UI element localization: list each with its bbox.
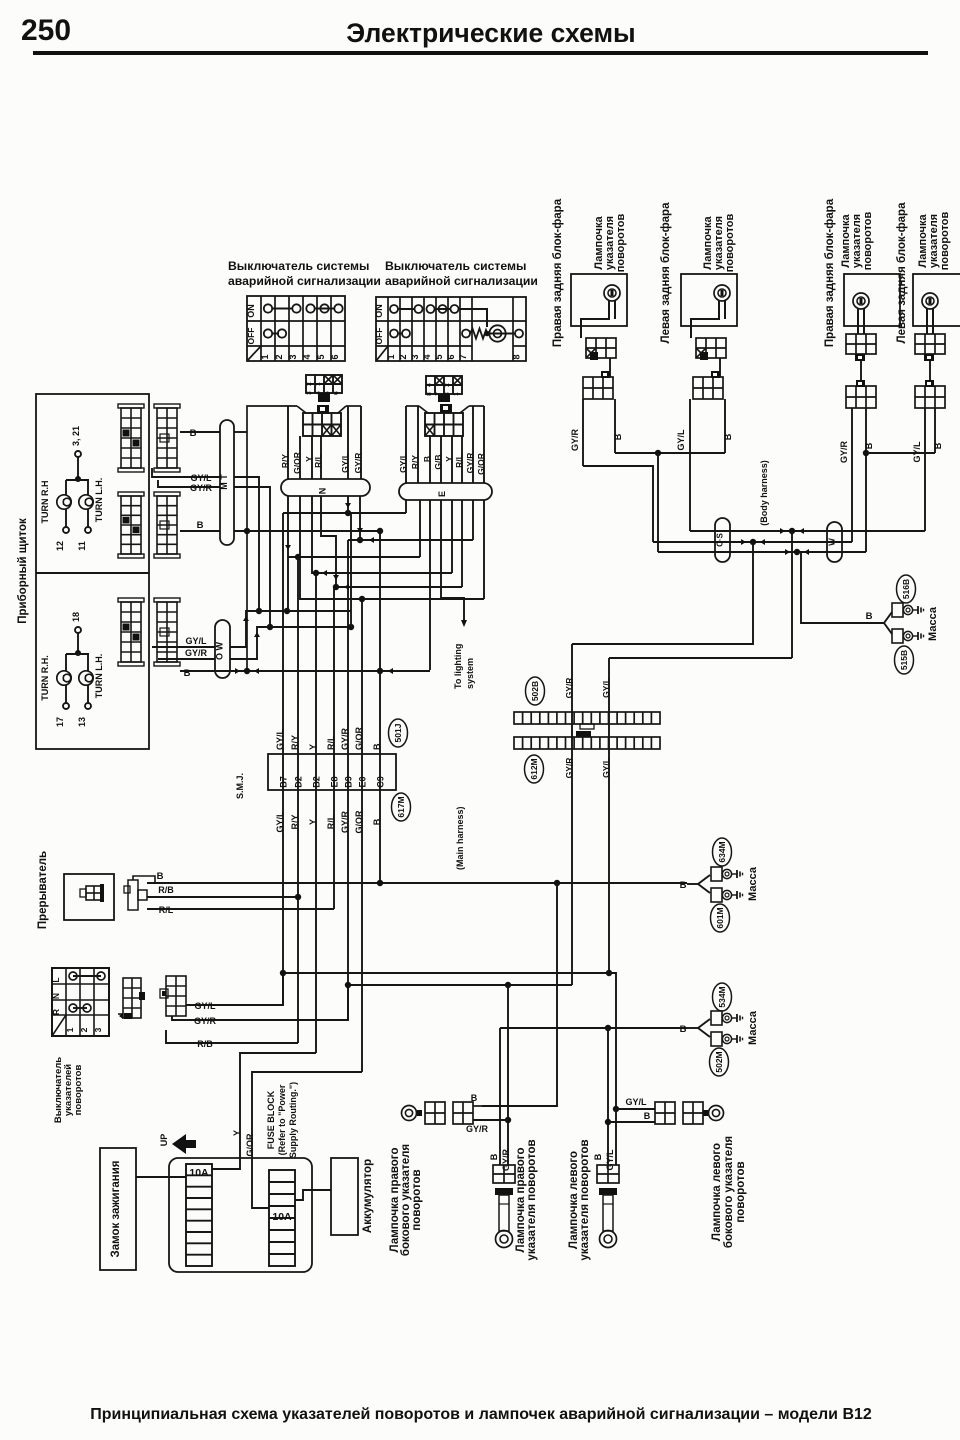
- svg-text:2: 2: [398, 354, 408, 359]
- R/Y vertical below SMJ: [297, 790, 299, 1043]
- right rear combination lamp harness wire: [609, 358, 611, 377]
- svg-text:Y: Y: [444, 456, 454, 462]
- svg-text:R/Y: R/Y: [290, 735, 300, 750]
- svg-text:5: 5: [316, 354, 326, 359]
- svg-text:B: B: [864, 442, 874, 449]
- svg-text:6: 6: [333, 391, 340, 395]
- B vertical below SMJ: [379, 790, 381, 883]
- harness row B: [658, 551, 866, 553]
- right rear combination lamp box: [571, 274, 627, 326]
- connector strip 612M: [514, 737, 660, 749]
- svg-text:B: B: [933, 442, 943, 449]
- unit2 B wire down: [724, 399, 726, 453]
- wire B left side marker: [608, 1121, 655, 1123]
- left rear combination lamp turn signal bulb: [714, 285, 730, 301]
- svg-text:B: B: [723, 433, 733, 440]
- harness row GY/L: [690, 530, 925, 532]
- connector 617M: [392, 793, 411, 821]
- Y vertical below SMJ: [315, 790, 317, 1053]
- GY/R vertical right lamps: [507, 985, 509, 1165]
- B rail rear lamps: [615, 452, 725, 454]
- svg-text:FUSE BLOCK: FUSE BLOCK: [266, 1090, 276, 1149]
- ground connector 534M: [711, 1011, 722, 1025]
- svg-text:4: 4: [302, 354, 312, 359]
- svg-text:3: 3: [288, 354, 298, 359]
- wire GY/R right side marker: [473, 1119, 508, 1121]
- unit3 B wire down: [865, 408, 867, 453]
- svg-text:3, 21: 3, 21: [71, 426, 81, 446]
- svg-text:GY/L: GY/L: [194, 1001, 216, 1011]
- ignition switch box: [100, 1148, 136, 1270]
- svg-text:Правая задняя блок-фара: Правая задняя блок-фара: [824, 198, 836, 347]
- svg-text:B: B: [157, 871, 164, 882]
- svg-text:GY/R: GY/R: [501, 1149, 511, 1172]
- wire GY/R from SW2: [472, 406, 474, 483]
- svg-text:поворотов: поворотов: [862, 211, 874, 270]
- unit1 B wire down: [614, 399, 616, 453]
- W-O GY/R output jog: [230, 627, 351, 659]
- B vertical left lamps: [607, 1028, 609, 1165]
- oval 601M: [711, 904, 730, 932]
- SW2 OFF row contacts: [398, 333, 403, 335]
- connector E: [399, 483, 492, 500]
- SW1 body connector: [303, 413, 341, 436]
- lower feed terminal 18: [75, 627, 81, 633]
- unit1 GY/R wire down: [582, 399, 584, 466]
- GY/R front rail to body harness: [572, 542, 753, 644]
- svg-text:S.M.J.: S.M.J.: [235, 773, 245, 799]
- connector W-O: [215, 620, 230, 678]
- unit4 B wire down: [934, 408, 936, 453]
- svg-text:1: 1: [65, 1027, 75, 1032]
- B rail lower: [215, 670, 430, 672]
- GY/L wire to left lamps: [615, 1109, 617, 1165]
- svg-text:GY/R: GY/R: [190, 483, 213, 493]
- right front combination lamp bulb connector: [846, 334, 876, 354]
- wire R/L from flasher: [147, 908, 334, 910]
- svg-text:GY/R: GY/R: [570, 429, 580, 452]
- svg-text:1: 1: [260, 354, 270, 359]
- lower TURN L.H lamp: [87, 654, 89, 671]
- right rear combination lamp turn signal bulb: [604, 285, 620, 301]
- SW1 ON row contacts: [272, 308, 293, 310]
- lower TURN R.H lamp: [65, 654, 67, 671]
- SW2 pilot lamp branch wire: [458, 309, 487, 327]
- svg-text:7: 7: [458, 354, 468, 359]
- svg-text:поворотов: поворотов: [724, 213, 736, 272]
- wire G/OR to fuse block: [252, 1072, 362, 1208]
- svg-text:1: 1: [315, 382, 322, 386]
- wire battery to fuse: [295, 1190, 331, 1200]
- B rail to ground 2: [500, 1027, 687, 1029]
- svg-text:2: 2: [79, 1027, 89, 1032]
- svg-text:Y: Y: [232, 1130, 242, 1136]
- oval 502B: [526, 677, 545, 705]
- oval 515B: [895, 646, 914, 674]
- svg-text:Приборный щиток: Приборный щиток: [17, 518, 29, 624]
- wire R/B from turn switch: [166, 1030, 298, 1043]
- svg-text:R/L: R/L: [313, 454, 323, 468]
- svg-text:516B: 516B: [901, 579, 911, 599]
- connector S-C: [715, 518, 730, 562]
- left rear combination lamp bulb wire: [691, 301, 719, 338]
- wire GY/L from SW2: [405, 406, 407, 483]
- oval 634M: [713, 838, 732, 866]
- wire B from T-M to ground rail: [234, 431, 247, 433]
- svg-text:501J: 501J: [393, 723, 403, 742]
- svg-text:GY/L: GY/L: [190, 473, 212, 483]
- svg-text:G/OR: G/OR: [354, 726, 364, 750]
- svg-text:ON: ON: [246, 304, 256, 318]
- svg-text:аварийной сигнализации: аварийной сигнализации: [385, 274, 538, 288]
- GY/L rail: [283, 512, 406, 514]
- ground connector 601M: [711, 888, 722, 902]
- ground wire B right: [801, 552, 884, 623]
- svg-text:G/OR: G/OR: [245, 1133, 255, 1157]
- SW2 pilot lamp: [489, 325, 505, 341]
- svg-text:TURN R.H.: TURN R.H.: [40, 655, 50, 701]
- svg-text:GY/L: GY/L: [340, 453, 350, 473]
- wire R/L from SW2: [461, 436, 463, 483]
- svg-text:5: 5: [434, 354, 444, 359]
- left front combination lamp harness connector: [915, 386, 945, 408]
- harness connector B3: [154, 598, 180, 602]
- svg-text:GY/L: GY/L: [601, 678, 611, 698]
- GY/L drop to front rail: [791, 531, 793, 658]
- svg-text:601M: 601M: [715, 907, 725, 928]
- svg-text:G/OR: G/OR: [292, 452, 302, 474]
- svg-text:N: N: [318, 488, 328, 495]
- svg-text:(Main harness): (Main harness): [455, 806, 465, 870]
- svg-text:G/B: G/B: [433, 454, 443, 469]
- turn switch L contacts: [73, 975, 101, 977]
- SW1 connector lead-in wires: [297, 406, 306, 413]
- svg-text:GY/R: GY/R: [564, 678, 574, 699]
- fuse strip 2: [269, 1170, 295, 1266]
- svg-text:Масса: Масса: [927, 606, 939, 641]
- svg-text:Масса: Масса: [747, 1010, 759, 1045]
- svg-text:B: B: [372, 743, 382, 750]
- svg-text:GY/L: GY/L: [676, 429, 686, 451]
- svg-text:Y: Y: [308, 744, 318, 750]
- svg-text:GY/L: GY/L: [601, 758, 611, 778]
- GY/R vertical below SMJ: [347, 790, 349, 1020]
- svg-text:11: 11: [77, 541, 87, 551]
- instrument connector A1: [118, 404, 144, 408]
- SW2 plug pinout connector: [426, 376, 462, 394]
- svg-text:Левая задняя блок-фара: Левая задняя блок-фара: [896, 202, 908, 344]
- R/L rail: [321, 496, 462, 587]
- svg-text:3: 3: [410, 354, 420, 359]
- instrument panel box: [36, 394, 149, 749]
- oval 612M: [525, 755, 544, 783]
- wire GY/L from turn switch: [186, 973, 283, 1005]
- GY/L rail bottom: [283, 972, 609, 974]
- svg-text:B: B: [184, 668, 191, 679]
- svg-text:6: 6: [446, 354, 456, 359]
- svg-text:OFF: OFF: [374, 328, 384, 345]
- wire GY/L from T-M down: [234, 477, 259, 611]
- svg-text:6: 6: [330, 354, 340, 359]
- wire R/Y from SW2: [417, 406, 419, 483]
- svg-text:Аккумулятор: Аккумулятор: [362, 1159, 374, 1233]
- harness row GY/R: [653, 541, 852, 543]
- GY/L vertical below SMJ: [282, 790, 284, 1005]
- upper junction: [75, 476, 81, 482]
- left side marker lamp: [655, 1102, 675, 1124]
- svg-text:указателя поворотов: указателя поворотов: [579, 1139, 591, 1260]
- left rear combination lamp harness connector: [693, 377, 723, 399]
- SMJ box: [268, 754, 396, 790]
- right rear combination lamp bulb wire: [581, 301, 609, 338]
- svg-text:B: B: [422, 456, 432, 462]
- R/Y rail: [288, 496, 420, 557]
- svg-text:Правая задняя блок-фара: Правая задняя блок-фара: [552, 198, 564, 347]
- right rear combination lamp harness connector: [583, 377, 613, 399]
- upper lamp terminals 12 11: [65, 509, 67, 527]
- turn switch connector 1: [123, 978, 141, 1018]
- wire R/L from SW1: [320, 436, 322, 479]
- svg-text:250: 250: [21, 14, 71, 47]
- wire GY/R to T-M: [158, 480, 220, 487]
- header rule: [33, 51, 928, 55]
- harness connector B2: [154, 492, 180, 496]
- svg-text:system: system: [465, 658, 475, 689]
- svg-text:B: B: [489, 1153, 499, 1160]
- flasher internal connector: [86, 886, 102, 900]
- wire ignition to fuse: [136, 1176, 186, 1178]
- R/Y extension down: [287, 557, 289, 611]
- SW2 pilot lamp resistor: [470, 329, 488, 339]
- svg-text:Замок зажигания: Замок зажигания: [110, 1160, 122, 1257]
- svg-text:Прерыватель: Прерыватель: [37, 851, 49, 929]
- svg-text:2: 2: [306, 382, 313, 386]
- upper TURN L.H lamp: [87, 480, 89, 495]
- svg-text:B: B: [613, 433, 623, 440]
- svg-text:R/Y: R/Y: [280, 454, 290, 469]
- stub vertical x351: [350, 513, 352, 627]
- svg-text:E: E: [437, 491, 447, 497]
- svg-text:R/B: R/B: [158, 885, 174, 895]
- svg-text:B: B: [866, 611, 873, 622]
- svg-text:GY/R: GY/R: [353, 453, 363, 474]
- harness connector B1: [154, 404, 180, 408]
- unit3 GY/R wire down: [851, 408, 853, 542]
- svg-text:B: B: [471, 1093, 478, 1103]
- svg-text:O W: O W: [215, 641, 225, 660]
- svg-text:R/L: R/L: [326, 735, 336, 750]
- wire GY/L from SW1: [347, 406, 349, 479]
- left front combination lamp box: [913, 274, 960, 326]
- svg-text:Левая задняя блок-фара: Левая задняя блок-фара: [660, 202, 672, 344]
- svg-text:13: 13: [77, 717, 87, 727]
- connector W: [827, 522, 842, 562]
- svg-text:ON: ON: [374, 304, 384, 318]
- svg-text:10A: 10A: [272, 1211, 292, 1223]
- svg-text:B: B: [680, 880, 687, 891]
- svg-text:поворотов: поворотов: [735, 1161, 747, 1222]
- svg-text:TURN L.H.: TURN L.H.: [94, 654, 104, 699]
- hazard switch SW2 contact table: [376, 297, 526, 361]
- svg-text:R/L: R/L: [159, 905, 174, 915]
- svg-text:GY/R: GY/R: [465, 453, 475, 474]
- svg-text:2: 2: [274, 354, 284, 359]
- SW2 plug key tab: [438, 394, 450, 402]
- ground connector 516B: [892, 603, 903, 617]
- SW1 body connector cap: [317, 405, 329, 414]
- wire GY/L left side marker: [616, 1108, 655, 1110]
- wire GY/L to T-M: [152, 468, 220, 477]
- connector strip 502B: [514, 712, 660, 724]
- svg-text:18: 18: [71, 612, 81, 622]
- oval 534M: [713, 983, 732, 1011]
- SW1 plug key tab: [318, 393, 330, 402]
- SW2 ON row contacts: [398, 308, 414, 310]
- wire R/B from flasher: [147, 896, 298, 898]
- right side marker lamp: [402, 1106, 417, 1121]
- right front combination lamp turn signal bulb: [853, 293, 869, 309]
- svg-text:(Refer to "Power: (Refer to "Power: [277, 1084, 287, 1155]
- W-O GY/L output jog: [230, 611, 351, 647]
- main B ground rail: [380, 882, 687, 884]
- svg-text:Выключатель системы: Выключатель системы: [385, 259, 526, 273]
- oval 502M lower: [710, 1048, 729, 1076]
- lower junction: [75, 650, 81, 656]
- svg-text:R/Y: R/Y: [410, 455, 420, 470]
- svg-text:GY/L: GY/L: [605, 1149, 615, 1171]
- left front combination lamp turn signal bulb: [922, 293, 938, 309]
- wire G/OR from SW1: [299, 436, 301, 479]
- wire B from SW2: [429, 436, 431, 483]
- unit4 GY/L wire down: [924, 408, 926, 531]
- svg-text:аварийной сигнализации: аварийной сигнализации: [228, 274, 381, 288]
- SW1 plug pinout connector: [306, 375, 342, 393]
- upper TURN R.H lamp: [65, 480, 67, 495]
- svg-text:поворотов: поворотов: [411, 1169, 423, 1230]
- B wire right side marker: [482, 883, 557, 1106]
- wire GY/R from SW1: [360, 406, 362, 479]
- wire R/Y from SW1: [287, 406, 289, 479]
- svg-text:B: B: [197, 520, 204, 531]
- svg-text:B: B: [190, 428, 197, 439]
- svg-text:GY/R: GY/R: [194, 1016, 217, 1026]
- upper feed terminal 3,21: [75, 451, 81, 457]
- connector N: [281, 479, 370, 496]
- svg-text:поворотов: поворотов: [615, 213, 627, 272]
- svg-text:8: 8: [512, 354, 522, 359]
- svg-text:G/OR: G/OR: [476, 453, 486, 475]
- right front combination lamp bulb wire: [857, 308, 859, 334]
- wire B right side marker: [473, 1105, 482, 1107]
- ground fork group2: [698, 1019, 710, 1028]
- hazard switch SW1 contact table: [247, 296, 345, 361]
- svg-text:515B: 515B: [899, 650, 909, 670]
- svg-text:502M: 502M: [714, 1051, 724, 1072]
- ground fork group1: [698, 875, 710, 884]
- lower lamp terminals 17 13: [65, 685, 67, 703]
- instrument connector A2: [118, 492, 144, 496]
- svg-text:поворотов: поворотов: [939, 211, 951, 270]
- svg-text:GY/R: GY/R: [839, 441, 849, 464]
- svg-text:(Body harness): (Body harness): [759, 460, 769, 526]
- flasher harness connector: [128, 880, 138, 910]
- wire to lighting system: [441, 500, 464, 620]
- svg-text:GY/R: GY/R: [564, 758, 574, 779]
- svg-text:GY/R: GY/R: [466, 1124, 489, 1134]
- R/L vertical below SMJ: [333, 790, 335, 909]
- oval 516B: [897, 575, 916, 603]
- wire GY/R from turn switch: [172, 985, 348, 1020]
- svg-text:M T: M T: [219, 474, 229, 490]
- right front combination lamp harness wire: [860, 361, 862, 386]
- G/OR vertical below SMJ: [361, 790, 363, 1072]
- svg-text:TURN R.H: TURN R.H: [40, 481, 50, 524]
- wire GY/R to W-O: [158, 658, 215, 660]
- wire B from flasher: [133, 876, 155, 883]
- wire G/B from SW2: [440, 436, 442, 483]
- left front combination lamp bulb wire: [926, 308, 928, 334]
- wire G/OR from SW2: [483, 406, 485, 483]
- svg-text:Масса: Масса: [747, 866, 759, 901]
- GY/L front rail to body harness: [609, 657, 792, 659]
- ground connector 502M: [711, 1032, 722, 1046]
- svg-text:R/L: R/L: [454, 454, 464, 468]
- svg-text:2: 2: [444, 383, 451, 387]
- svg-text:3: 3: [93, 1027, 103, 1032]
- right front combination lamp box: [844, 274, 900, 326]
- ground wire B group1: [687, 883, 698, 885]
- wire GY/R from T-M down: [234, 487, 270, 627]
- turn switch R contacts: [73, 1007, 87, 1009]
- svg-text:3: 3: [306, 391, 313, 395]
- right front combination lamp harness connector: [846, 386, 876, 408]
- SW2 connector lead-in wires: [419, 406, 428, 413]
- svg-text:TURN L.H.: TURN L.H.: [94, 478, 104, 523]
- svg-text:4: 4: [422, 354, 432, 359]
- svg-text:1: 1: [386, 354, 396, 359]
- left rear combination lamp bulb connector: [696, 338, 726, 358]
- right rear combination lamp bulb connector: [586, 338, 616, 358]
- svg-text:GY/L: GY/L: [912, 441, 922, 463]
- svg-text:GY/L: GY/L: [398, 453, 408, 473]
- svg-text:Принципиальная схема указателе: Принципиальная схема указателей поворото…: [90, 1406, 872, 1423]
- wire Y into fuse 1: [212, 1165, 240, 1169]
- SW2 body connector: [425, 413, 463, 436]
- svg-text:634M: 634M: [717, 841, 727, 862]
- svg-text:To lighting: To lighting: [453, 644, 463, 689]
- svg-text:12: 12: [55, 541, 65, 551]
- left rear combination lamp box: [681, 274, 737, 326]
- fuse strip 1: [186, 1164, 212, 1266]
- connector T-M: [220, 420, 234, 545]
- wire Y from SW2: [451, 436, 453, 483]
- svg-text:поворотов: поворотов: [73, 1065, 84, 1116]
- svg-text:B: B: [593, 1153, 603, 1160]
- svg-text:Supply Routing."): Supply Routing."): [288, 1082, 298, 1158]
- svg-text:GY/L: GY/L: [185, 636, 207, 646]
- turn switch connector 2: [166, 976, 186, 1016]
- svg-text:Электрические схемы: Электрические схемы: [346, 18, 635, 48]
- wire GY/L to W-O: [152, 646, 215, 648]
- svg-text:502B: 502B: [530, 681, 540, 701]
- G/OR rail: [300, 496, 484, 599]
- svg-text:B: B: [680, 1024, 687, 1035]
- SW2 contact 8: [515, 330, 523, 338]
- svg-text:GY/L: GY/L: [275, 728, 285, 750]
- left rear combination lamp harness wire: [719, 358, 721, 377]
- B rail front lamps: [866, 452, 935, 454]
- wire B to T-M: [180, 431, 220, 433]
